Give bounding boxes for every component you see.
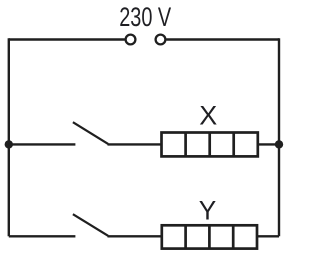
node junction dot right (branch X)	[275, 140, 283, 148]
wire element X to right rail	[258, 143, 279, 145]
switch S1 blade (open)	[73, 122, 108, 144]
wire left rail vertical	[8, 38, 10, 236]
wire switch S1 to element X	[108, 143, 162, 145]
wire top-right horizontal	[167, 38, 280, 40]
terminal circle right	[156, 35, 166, 45]
wire element Y to right rail	[257, 235, 279, 237]
heating element X (4-cell box)	[162, 133, 258, 157]
wire switch S2 to element Y	[108, 235, 162, 237]
heating element Y (4-cell box)	[162, 225, 257, 248]
terminal circle left	[126, 35, 136, 45]
svg-text:X: X	[199, 101, 217, 131]
node junction dot left (branch X)	[5, 140, 13, 148]
svg-text:Y: Y	[199, 196, 217, 226]
wire top-left horizontal	[9, 38, 125, 40]
wire branch X left segment	[9, 143, 76, 145]
wire right rail vertical	[278, 38, 280, 236]
svg-text:230 V: 230 V	[119, 2, 171, 32]
wire branch Y left segment	[9, 235, 76, 237]
switch S2 blade (open)	[73, 214, 108, 236]
